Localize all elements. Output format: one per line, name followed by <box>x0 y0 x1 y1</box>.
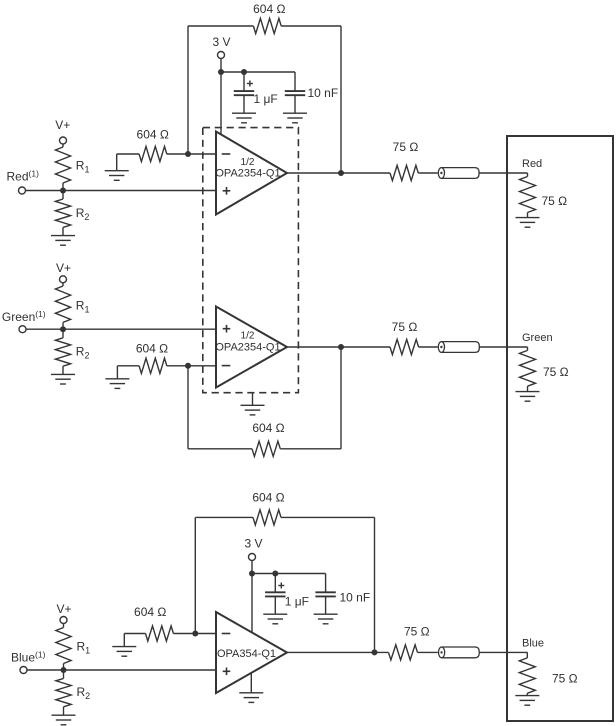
coax cable Blue <box>442 647 480 658</box>
svg-text:Green: Green <box>522 332 553 344</box>
terminal V+ Blue <box>60 617 67 624</box>
resistor 75 ohm series Blue <box>389 645 418 660</box>
svg-text:75 Ω: 75 Ω <box>542 194 568 208</box>
wire Green to coax <box>419 346 438 348</box>
svg-text:OPA2354-Q1: OPA2354-Q1 <box>215 167 280 179</box>
resistor 604 ohm input Green <box>139 358 167 373</box>
terminal V+ Green <box>60 276 67 283</box>
svg-text:604 Ω: 604 Ω <box>134 605 166 619</box>
wire Red output <box>287 172 390 174</box>
svg-text:1/2: 1/2 <box>241 330 255 341</box>
resistor 604 ohm feedback Blue <box>253 510 281 525</box>
resistor 604 ohm feedback Green <box>252 441 280 456</box>
terminal Red input <box>19 187 26 194</box>
terminal Green input <box>19 326 26 333</box>
junction Red output node <box>338 170 344 176</box>
wire Red to coax <box>418 172 437 174</box>
wire Green inside monitor <box>527 347 529 350</box>
pin - U1A <box>222 153 231 155</box>
svg-text:3 V: 3 V <box>244 537 262 551</box>
resistor 604 ohm feedback Red <box>253 18 281 33</box>
junction Green output node <box>338 344 344 350</box>
svg-text:OPA2354-Q1: OPA2354-Q1 <box>215 341 280 353</box>
capacitor C2 10 nF Red <box>294 72 296 91</box>
resistor R1 Red divider <box>62 144 64 147</box>
junction 3V Blue at bypass caps <box>249 571 255 577</box>
svg-text:10 nF: 10 nF <box>308 86 339 100</box>
wire Red inverting input row <box>117 153 139 155</box>
op-amp U2 OPA354-Q1 (Blue) <box>216 612 287 693</box>
svg-text:V+: V+ <box>56 261 71 275</box>
ground termination Red <box>516 217 540 219</box>
wire Green output <box>287 346 390 348</box>
terminal V+ Red <box>60 137 67 144</box>
svg-text:75 Ω: 75 Ω <box>404 624 430 638</box>
resistor 75 ohm series Red <box>390 165 418 180</box>
ground R2 Blue <box>52 714 76 716</box>
label + C1 Red <box>247 83 253 85</box>
coax cable Red <box>441 168 479 179</box>
dashed package outline U1 OPA2354-Q1 <box>203 128 299 393</box>
ground R2 Green <box>51 373 75 375</box>
terminal Blue input <box>20 667 27 674</box>
resistor R1 Blue divider <box>63 623 65 627</box>
svg-text:604 Ω: 604 Ω <box>252 491 284 505</box>
wire 3V Red rail <box>220 58 222 134</box>
ground Red input 604 ohm <box>116 154 118 171</box>
wire coax Blue to monitor <box>479 651 527 653</box>
svg-text:1/2: 1/2 <box>241 157 255 168</box>
ground U2 <box>250 673 252 693</box>
wire Red inside monitor <box>527 173 529 177</box>
pin + U1B <box>223 328 231 330</box>
resistor 75 ohm termination Red <box>520 177 536 213</box>
ground Green input 604 ohm <box>116 366 118 379</box>
wire Blue inside monitor <box>526 652 528 658</box>
junction Blue divider <box>61 667 67 673</box>
junction Green divider <box>60 326 66 332</box>
wire Red feedback loop top (604 ohm path) <box>188 25 253 27</box>
label + C3 Blue <box>278 585 284 587</box>
svg-text:75 Ω: 75 Ω <box>392 320 418 334</box>
svg-text:75 Ω: 75 Ω <box>552 672 578 686</box>
wire Blue to coax <box>418 651 438 653</box>
svg-text:75 Ω: 75 Ω <box>393 140 419 154</box>
svg-text:Blue: Blue <box>522 637 544 649</box>
junction Red divider <box>60 188 66 194</box>
ground termination Green <box>516 391 540 393</box>
ground C3 Blue <box>263 613 287 615</box>
resistor R2 Red divider <box>62 191 64 200</box>
svg-text:604 Ω: 604 Ω <box>252 421 284 435</box>
svg-text:V+: V+ <box>55 118 70 132</box>
svg-text:604 Ω: 604 Ω <box>136 342 168 356</box>
resistor 604 ohm input Red <box>139 146 167 161</box>
junction 3V Red at bypass caps <box>218 69 224 75</box>
ground C4 Blue <box>314 613 338 615</box>
ground R2 Red <box>51 235 75 237</box>
wire Green input row to op-amp + <box>26 328 216 330</box>
resistor 604 ohm input Blue <box>146 626 174 641</box>
coax cable Green <box>441 342 479 353</box>
svg-text:604 Ω: 604 Ω <box>253 2 285 16</box>
pin - U2 <box>222 633 231 635</box>
ground U1 package <box>252 393 254 405</box>
junction Green inverting node <box>185 363 191 369</box>
op-amp U1B 1/2 OPA2354-Q1 (Green) <box>216 307 287 388</box>
svg-text:1 μF: 1 μF <box>285 595 309 609</box>
capacitor C3 1 uF Blue <box>274 574 276 593</box>
junction Red inverting node <box>185 151 191 157</box>
junction Blue output node <box>372 649 378 655</box>
pin + U1A <box>223 190 231 192</box>
resistor R2 Green divider <box>62 329 64 338</box>
ground C1 Red <box>232 112 256 114</box>
junction Blue inverting node <box>192 631 198 637</box>
resistor 75 ohm series Green <box>390 339 419 354</box>
wire Blue inverting input row <box>124 633 145 635</box>
ground termination Blue <box>515 695 539 697</box>
svg-text:75 Ω: 75 Ω <box>543 365 569 379</box>
svg-text:1 μF: 1 μF <box>254 92 278 106</box>
svg-text:604 Ω: 604 Ω <box>137 127 169 141</box>
ground C2 Red <box>283 112 307 114</box>
op-amp U1A 1/2 OPA2354-Q1 (Red) <box>216 132 287 215</box>
wire Blue input row to op-amp + <box>27 669 216 671</box>
wire coax Red to monitor <box>479 172 528 174</box>
wire Red input row to op-amp + <box>25 190 216 192</box>
wire Blue output <box>287 651 389 653</box>
capacitor C1 1 uF Red <box>243 72 245 91</box>
resistor 75 ohm termination Green <box>520 350 536 386</box>
svg-text:Red: Red <box>522 158 542 170</box>
resistor R2 Blue divider <box>63 670 65 678</box>
svg-text:3 V: 3 V <box>212 35 230 49</box>
svg-text:10 nF: 10 nF <box>340 591 371 605</box>
wire Green inverting input row <box>117 365 139 367</box>
ground Blue input 604 ohm <box>123 634 125 647</box>
wire Green feedback loop bottom (604 ohm path) <box>187 366 189 449</box>
wire coax Green to monitor <box>479 346 527 348</box>
node 3V Blue supply <box>249 554 256 561</box>
resistor R1 Green divider <box>62 283 64 286</box>
svg-text:OPA354-Q1: OPA354-Q1 <box>217 648 276 660</box>
wire Blue feedback loop top (604 ohm path) <box>195 516 253 518</box>
node 3V Red supply <box>218 52 225 59</box>
pin + U2 <box>223 670 231 672</box>
capacitor C4 10 nF Blue <box>325 574 327 593</box>
wire 3V Blue rail <box>251 560 253 633</box>
svg-text:V+: V+ <box>56 602 71 616</box>
pin - U1B <box>222 365 231 367</box>
monitor load box <box>507 136 613 721</box>
resistor 75 ohm termination Blue <box>519 658 535 693</box>
